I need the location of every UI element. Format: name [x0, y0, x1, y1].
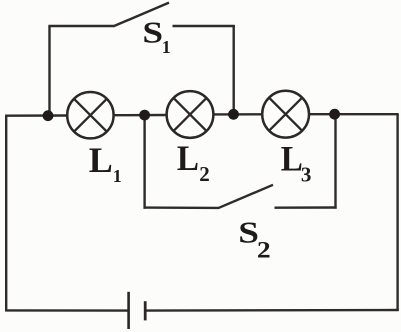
svg-text:1: 1 — [113, 166, 122, 186]
wire lamp row segment L1 to L2 — [114, 114, 167, 117]
label L3 — [281, 139, 312, 187]
label L1 — [89, 140, 122, 186]
svg-text:3: 3 — [301, 163, 312, 187]
svg-text:L: L — [281, 139, 303, 179]
wire left vertical — [5, 116, 7, 311]
wire lamp row segment L2 to L3 — [214, 113, 263, 115]
lamp L1 — [67, 92, 113, 138]
node B (between L1 and L2) — [139, 110, 150, 121]
wire right vertical — [396, 114, 398, 311]
wire bottom left (to battery) — [5, 309, 127, 312]
wire S2 branch bottom left horizontal — [144, 206, 219, 209]
wire S1 branch left vertical — [48, 26, 50, 115]
lamp L3 — [262, 91, 309, 138]
svg-text:1: 1 — [162, 37, 171, 57]
wire S1 branch right vertical — [232, 25, 234, 114]
svg-text:L: L — [89, 140, 113, 180]
node D (right of L3) — [329, 109, 340, 120]
lamp L2 — [167, 91, 214, 138]
wire S2 branch left vertical — [143, 115, 145, 209]
node C (between L2 and L3) — [228, 109, 239, 120]
wire S2 branch bottom right horizontal — [275, 206, 337, 209]
label L2 — [177, 139, 210, 186]
svg-text:L: L — [177, 139, 199, 179]
switch S1 blade — [113, 3, 169, 27]
wire bottom right (from battery) — [146, 309, 399, 312]
wire S1 branch top right horizontal — [173, 25, 235, 27]
battery short plate — [144, 301, 147, 320]
svg-text:S: S — [142, 15, 163, 49]
node A (left of L1) — [43, 110, 54, 121]
wire S1 branch top left horizontal — [48, 25, 113, 27]
label S1 — [142, 15, 170, 57]
svg-text:2: 2 — [257, 237, 271, 262]
wire lamp row segment L3 to right edge — [309, 113, 399, 115]
svg-text:2: 2 — [199, 162, 210, 186]
switch S2 blade — [218, 185, 273, 208]
wire S2 branch right vertical — [334, 114, 336, 209]
wire lamp row segment left edge to node A — [5, 114, 67, 117]
svg-text:S: S — [238, 215, 259, 249]
battery long plate — [127, 292, 130, 329]
label S2 — [238, 215, 271, 263]
